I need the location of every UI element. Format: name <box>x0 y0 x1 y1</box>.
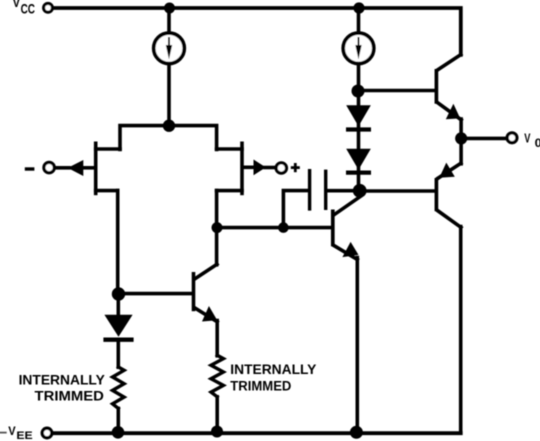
wire Q5 emitter down to VEE rail <box>355 258 359 434</box>
node junction diff pair tail <box>163 120 175 132</box>
VO terminal circle <box>507 133 517 143</box>
minus sign <box>25 167 35 170</box>
wire diff pair connector <box>120 126 217 150</box>
node junction on rail at current source I1 <box>164 3 175 14</box>
wire Q7 collector down to VEE rail <box>459 227 463 434</box>
node junction diode bottom / Q7 base wire <box>353 184 367 198</box>
label INTERNALLY TRIMMED (left) <box>19 373 105 404</box>
wire to Q7 base <box>360 189 435 193</box>
diode D2 <box>346 149 371 173</box>
JFET Q1 (inverting input) <box>56 142 121 196</box>
VEE rail <box>54 431 461 435</box>
svg-text:0: 0 <box>535 136 540 150</box>
plus sign <box>291 163 300 172</box>
transistor Q3 (current mirror NPN) <box>194 264 218 322</box>
node junction rail R2 <box>211 426 223 438</box>
diode D3 <box>103 315 133 340</box>
wire I2 down through diode chain to node below <box>357 66 361 192</box>
VEE terminal circle <box>42 428 52 438</box>
wire D3 to resistor R1 <box>117 342 121 367</box>
node junction compensation cap tap <box>278 222 289 233</box>
wire node to diode D3 <box>117 294 121 316</box>
node junction output <box>455 132 467 144</box>
transistor Q6 (output NPN) <box>436 55 461 120</box>
resistor R1 <box>113 367 125 408</box>
svg-text:CC: CC <box>21 1 36 16</box>
svg-text:TRIMMED: TRIMMED <box>35 388 105 403</box>
node junction rail R1 <box>112 426 125 439</box>
wire Q2 drain down to second stage base node <box>215 191 219 265</box>
VCC terminal circle <box>44 3 53 12</box>
wire rail to I2 <box>357 8 361 31</box>
svg-text:V: V <box>8 425 16 438</box>
wire to Q6 base <box>358 89 435 93</box>
label VCC <box>13 0 36 16</box>
svg-text:INTERNALLY: INTERNALLY <box>19 373 105 388</box>
diode D1 <box>346 105 371 129</box>
current source I2 <box>343 33 374 64</box>
transistor Q5 (second gain stage NPN) <box>333 197 360 260</box>
wire rail to I1 <box>167 8 171 31</box>
JFET Q2 (non-inverting input) <box>217 142 275 196</box>
wire cap right lead to diode node <box>327 189 358 193</box>
label INTERNALLY TRIMMED (right) <box>230 362 316 393</box>
wire I1 to diff pair node <box>167 66 171 127</box>
current source I1 <box>154 33 185 64</box>
minus sign of -VEE <box>0 432 6 434</box>
svg-text:V: V <box>13 0 21 10</box>
svg-text:V: V <box>524 132 531 146</box>
label VO <box>524 132 540 151</box>
inverting input terminal <box>44 162 54 172</box>
wire Q3 emitter to resistor R2 <box>215 321 219 356</box>
wire to second stage base <box>217 226 331 230</box>
node junction second-stage base wire <box>212 222 223 233</box>
svg-text:TRIMMED: TRIMMED <box>230 379 291 394</box>
node junction mirror/diode node <box>112 287 125 300</box>
svg-text:EE: EE <box>16 430 33 441</box>
capacitor C (compensation) <box>310 169 326 211</box>
wire R1 to VEE rail <box>117 408 121 432</box>
label VEE <box>8 425 33 441</box>
node junction on rail at current source I2 <box>353 2 364 13</box>
node junction below I2 (base of Q6 wire) <box>352 85 365 98</box>
wire VCC rail (top, with right corner down) <box>54 8 461 55</box>
svg-text:INTERNALLY: INTERNALLY <box>230 362 316 377</box>
non-inverting input terminal <box>276 163 286 173</box>
wire output node to VO terminal <box>461 137 506 141</box>
wire Q1 drain down to mirror node <box>116 191 120 294</box>
wire R2 to VEE rail <box>215 397 219 431</box>
resistor R2 <box>211 355 223 397</box>
wire cap left lead <box>283 191 308 228</box>
wire Q6 emitter to output node <box>459 119 463 138</box>
wire Q3 base <box>118 292 192 296</box>
transistor Q7 (output PNP) <box>436 138 461 227</box>
node junction rail Q5 emitter <box>350 426 363 439</box>
